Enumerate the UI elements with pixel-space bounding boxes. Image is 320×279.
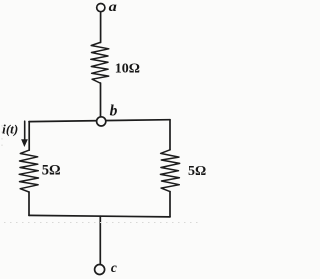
svg-text:a: a <box>109 0 117 15</box>
svg-text:b: b <box>110 103 118 120</box>
svg-text:i(t): i(t) <box>2 121 18 136</box>
svg-text:c: c <box>111 260 117 275</box>
svg-text:5Ω: 5Ω <box>188 164 206 179</box>
svg-text:5Ω: 5Ω <box>42 162 61 178</box>
svg-text:10Ω: 10Ω <box>115 61 140 76</box>
